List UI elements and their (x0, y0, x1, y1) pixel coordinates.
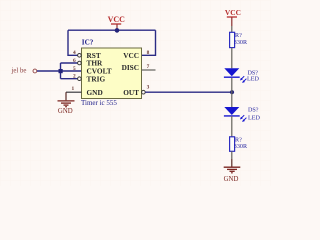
port jel_be (11, 67, 37, 74)
LED DS? (top) (224, 68, 260, 83)
resistor R? 330R (top) (230, 32, 248, 47)
svg-text:Timer ic 555: Timer ic 555 (81, 99, 117, 107)
svg-text:IC?: IC? (82, 39, 94, 47)
wire resistor R2 to ground (231, 151, 233, 159)
LED DS? (bottom) (224, 107, 261, 122)
wire bus to TRIG pin 2 (61, 78, 78, 80)
svg-text:LED: LED (247, 77, 259, 83)
svg-text:TRIG: TRIG (87, 74, 106, 83)
ground GND (right) stem (231, 159, 233, 167)
svg-text:GND: GND (224, 176, 239, 183)
svg-text:1: 1 (71, 86, 74, 92)
svg-text:4: 4 (73, 50, 76, 56)
svg-text:DS?: DS? (248, 70, 259, 76)
svg-text:GND: GND (58, 108, 73, 115)
svg-text:VCC: VCC (108, 15, 126, 24)
svg-text:330R: 330R (234, 144, 248, 150)
pin 4 RST bubble (78, 54, 82, 58)
power symbol VCC (top middle) (108, 15, 126, 30)
wire rail to VCC pin 8 (142, 30, 156, 55)
svg-text:GND: GND (87, 88, 103, 97)
svg-text:DS?: DS? (248, 108, 259, 114)
pin 6 THR bubble (78, 61, 82, 65)
junction VCC stem to rail (115, 28, 120, 33)
svg-text:R?: R? (235, 33, 242, 39)
IC IC? timer 555 body (82, 48, 142, 99)
svg-text:LED: LED (248, 115, 260, 121)
svg-text:3: 3 (147, 84, 150, 90)
wire vertical bus THR to TRIG (60, 63, 62, 79)
wire resistor R1 to LED DS1 (231, 48, 233, 69)
svg-text:5: 5 (73, 66, 76, 72)
wire bus to THR pin 6 (61, 62, 78, 64)
svg-text:8: 8 (147, 50, 150, 56)
pin 2 TRIG bubble (78, 77, 82, 81)
wire rail to RST pin 4 (68, 30, 78, 55)
svg-text:jel be: jel be (11, 67, 27, 74)
wire junction to LED DS2 anode (231, 93, 233, 108)
wire VCC to resistor R1 (231, 26, 233, 32)
pin 3 OUT bubble (142, 90, 146, 94)
svg-text:VCC: VCC (225, 8, 241, 17)
ground GND (left) (58, 101, 75, 107)
svg-text:VCC: VCC (123, 51, 139, 60)
wire VCC rail (68, 29, 156, 31)
wire jel_be to CVOLT pin 5 (37, 70, 82, 72)
pin 7 DISC stub (142, 69, 156, 71)
svg-text:330R: 330R (234, 40, 248, 46)
svg-text:6: 6 (73, 58, 76, 64)
svg-text:OUT: OUT (123, 88, 139, 97)
ground GND (right) (224, 167, 241, 173)
resistor R? 330R (bottom) (230, 137, 248, 152)
wire pin1 to ground (65, 92, 67, 100)
junction jel_be bus node (59, 69, 63, 73)
svg-text:2: 2 (73, 74, 76, 80)
wire OUT pin 3 to LED column (145, 91, 232, 93)
power symbol VCC (top right) (225, 8, 241, 26)
svg-text:DISC: DISC (122, 63, 139, 72)
svg-text:R?: R? (235, 138, 242, 144)
junction OUT node at LED column (230, 90, 234, 94)
wire LED DS1 cathode to junction (231, 78, 233, 93)
svg-text:7: 7 (147, 64, 150, 70)
wire LED DS2 cathode to resistor R2 (231, 116, 233, 137)
pin 1 GND stub (66, 91, 82, 93)
